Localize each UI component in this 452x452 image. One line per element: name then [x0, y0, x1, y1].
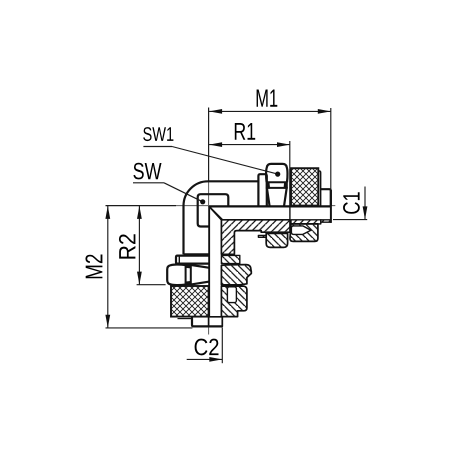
washer on horizontal branch, sectioned — [258, 235, 266, 237]
tube stub bottom, sectioned — [209, 317, 223, 327]
ferrule band sectioned — [291, 220, 321, 224]
nut SW2 left block — [167, 264, 185, 285]
tube stub sectioned — [321, 220, 331, 222]
nut SW1 sectioned lower half — [266, 233, 287, 247]
body hex flat edges — [198, 194, 229, 226]
label SW with leader — [133, 163, 161, 180]
nut SW2 chamfer wedge bottom — [185, 281, 192, 285]
thread cavity window (vertical) — [227, 287, 236, 303]
knurled sleeve horizontal — [291, 168, 318, 205]
dimension C2 — [221, 328, 223, 364]
body elbow section wall — [209, 207, 290, 255]
knurled sleeve vertical — [171, 286, 209, 317]
body outer corner — [184, 181, 259, 254]
nut SW1 waist lines — [266, 181, 287, 183]
wire section cut edge vertical — [208, 207, 210, 317]
body bottom edge — [184, 253, 209, 255]
thread cavity window (horizontal) — [291, 226, 311, 235]
nut SW1 upper block — [266, 164, 287, 182]
dimension C1 — [364, 187, 366, 220]
tube stub horizontal — [321, 189, 331, 205]
wire vertical centerline — [208, 108, 210, 183]
wire section cut edge horizontal — [209, 206, 331, 208]
nut SW1 chamfer wedge left — [266, 182, 270, 189]
tube stub bottom — [192, 317, 222, 327]
nut SW2 lower taper edges — [191, 265, 208, 268]
knurled sleeve sectioned (vertical branch) — [221, 286, 247, 316]
wire stub end edge — [330, 190, 332, 223]
nut SW1 chamfer wedge right — [284, 182, 288, 189]
wire tube end face — [289, 168, 291, 220]
nut SW2 sectioned right half — [221, 265, 251, 285]
washer horizontal branch — [258, 174, 266, 205]
knurled sleeve sectioned (horizontal branch) — [290, 224, 318, 242]
wire horizontal centerline — [106, 205, 177, 207]
label SW1 with leader — [143, 127, 173, 141]
nut SW2 chamfer wedge top — [185, 264, 192, 268]
sleeve flange edge horizontal — [318, 171, 320, 206]
nut SW1 lower taper edges — [267, 189, 270, 206]
dimension M2 — [107, 206, 109, 328]
dimension M1 — [209, 110, 331, 112]
washer on vertical branch, sectioned — [221, 255, 239, 263]
sleeve flange line — [178, 318, 193, 320]
dimension R1 — [209, 144, 290, 146]
washer vertical branch — [176, 256, 209, 264]
dimension R2 — [138, 206, 140, 285]
nut SW2 waist lines — [185, 265, 187, 285]
